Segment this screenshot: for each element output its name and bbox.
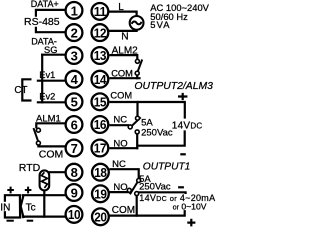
minus sign IN box [7,220,14,222]
wire switch ALM2 lower stub [136,75,138,78]
svg-text:14VDC: 14VDC [172,120,203,131]
AC source symbol [130,16,144,30]
svg-text:SG: SG [44,45,57,55]
svg-text:5: 5 [71,95,78,110]
wire NO to terminal 17 [111,147,138,149]
svg-text:NC: NC [113,115,127,126]
svg-text:6: 6 [71,117,78,132]
svg-text:N: N [121,32,128,43]
wire Ev2 to terminal 5 [38,101,66,103]
label IN [0,202,10,214]
svg-text:5VA: 5VA [150,19,170,30]
svg-text:19: 19 [94,188,107,202]
svg-text:ALM2: ALM2 [112,45,139,56]
terminal 10 [66,206,83,223]
plus sign OUTPUT2 [178,93,187,100]
terminal 12 [92,24,109,41]
brace Tc box [21,196,24,218]
wire N to terminal 12 [109,29,137,31]
svg-text:15: 15 [94,96,107,110]
wire NO to terminal 19 [111,191,130,193]
switch OUTPUT1 (contacts and blade) [127,179,140,196]
terminal 14 [92,71,109,88]
wire RTD to terminal 8 [48,171,66,173]
svg-text:2: 2 [71,26,78,41]
switch ALM2 (contacts and blade) [135,59,142,75]
minus sign OUTPUT2 [180,153,186,155]
switch OUTPUT2/ALM3 (contacts and blade) [128,116,141,134]
wire OUTPUT1 switch bottom stub [136,196,138,216]
svg-text:or 0~10V: or 0~10V [173,201,207,211]
svg-text:13: 13 [94,49,107,63]
terminal 5 [66,93,83,110]
svg-text:1: 1 [71,3,78,18]
terminal 3 [66,47,83,64]
wire sensor top to terminal 9 [23,194,66,196]
minus sign Tc box [27,220,34,222]
svg-text:NO: NO [113,182,127,193]
terminal 13 [92,47,109,64]
svg-text:L: L [118,2,124,13]
wire switch ALM1 lower stub and COM to terminal 7 [38,145,64,146]
resistor RTD (stadium with zigzag) [40,170,50,190]
wire DATA+ to terminal 1 [36,10,66,16]
wire 14Vdc lower lead [138,132,185,146]
switch ALM1 (contacts and blade) [34,128,41,145]
terminal 7 [66,140,83,157]
svg-text:17: 17 [94,142,107,156]
svg-text:Ev1: Ev1 [39,70,55,80]
svg-text:COM: COM [110,90,132,100]
svg-text:NC: NC [112,159,126,170]
svg-text:CT: CT [14,85,27,96]
terminal 9 [66,184,83,201]
svg-text:16: 16 [94,118,107,132]
svg-text:RS-485: RS-485 [24,16,60,28]
terminal 19 [92,185,109,202]
terminal 11 [92,3,109,20]
wire OUTPUT2 switch bottom stub [136,134,138,148]
plus sign Tc box [25,187,32,194]
svg-text:3: 3 [71,48,78,63]
terminal 18 [92,164,109,181]
box IN left [5,195,20,217]
svg-text:Tc: Tc [26,202,36,213]
terminal 20 [92,208,109,225]
svg-text:Ev2: Ev2 [39,92,55,102]
svg-text:COM: COM [39,148,64,160]
bracket CT [22,79,30,100]
minus sign OUTPUT1 [178,186,184,188]
label or 0~10V [173,201,207,211]
terminal 2 [66,24,83,41]
svg-text:9: 9 [71,185,78,200]
wire NC to terminal 18 [111,169,139,178]
wire DATA- to terminal 2 [36,28,66,32]
terminal 8 [66,164,83,181]
wire ALM1 to terminal 6 [36,123,65,127]
wire SG to terminal 3 [42,54,65,56]
terminal 4 [66,71,83,88]
svg-text:OUTPUT1: OUTPUT1 [143,162,191,173]
svg-text:250Vac: 250Vac [139,182,171,193]
svg-text:DATA+: DATA+ [31,0,59,9]
wire Ev1 to terminal 4 [38,80,66,82]
svg-text:OUTPUT2/ALM3: OUTPUT2/ALM3 [134,81,213,92]
svg-text:8: 8 [71,165,78,180]
wire bus SG/Ev1/Ev2 [41,55,43,103]
svg-text:ALM1: ALM1 [36,114,61,125]
wire OUTPUT2 switch feed [136,102,138,116]
svg-text:NO: NO [113,139,127,150]
svg-text:10: 10 [68,208,81,222]
label 14Vdc or 4~20mA [139,193,221,203]
svg-text:250Vac: 250Vac [141,127,173,138]
svg-text:COM: COM [112,205,135,216]
wire 250Vac lead [137,192,186,194]
label 14Vdc (OUTPUT2 supply) [171,119,203,132]
wire COM to terminal 14 [111,77,140,79]
terminal 16 [92,116,109,133]
plus sign OUTPUT1 [187,219,195,227]
svg-text:20: 20 [94,211,107,225]
wire ALM2 to terminal 13 [111,55,138,59]
svg-text:7: 7 [71,141,78,156]
terminal 15 [92,93,109,110]
svg-text:12: 12 [94,26,107,40]
wire NC to terminal 16 [111,124,129,126]
svg-text:11: 11 [94,5,107,19]
svg-text:14: 14 [94,73,107,87]
svg-text:18: 18 [94,166,107,180]
wire RTD bottom vertical [43,190,45,217]
wire COM to terminal 15 with + lead [111,102,185,118]
terminal 1 [66,2,83,19]
terminal 6 [66,116,83,133]
wire sensor bottom to terminal 10 [23,216,66,218]
svg-text:IN: IN [0,202,10,213]
terminal 17 [92,140,109,157]
plus sign IN box [7,187,14,194]
svg-text:RTD: RTD [19,162,41,174]
svg-text:COM: COM [111,69,133,79]
wire COM to terminal 20 [111,211,185,216]
wire L to terminal 11 [109,12,137,17]
